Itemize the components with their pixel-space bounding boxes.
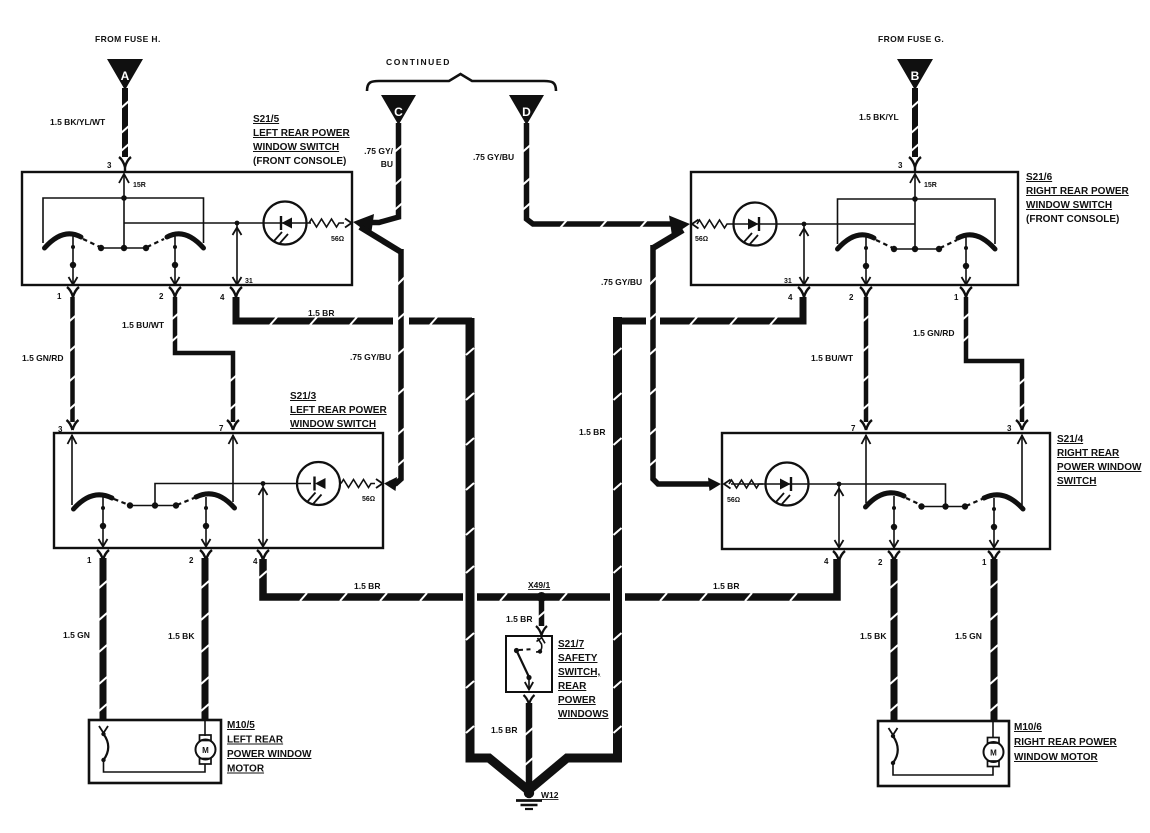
svg-text:3: 3 xyxy=(58,425,63,434)
svg-text:POWER: POWER xyxy=(558,695,597,706)
pin 3 connector of S21/6 xyxy=(909,157,921,172)
wire label 1.5 BU/WT xyxy=(122,320,165,330)
svg-text:4: 4 xyxy=(824,557,829,566)
svg-text:.75 GY/: .75 GY/ xyxy=(364,146,393,156)
svg-text:1.5 BR: 1.5 BR xyxy=(491,725,517,735)
S21/6 contact dashes xyxy=(876,240,957,248)
S21/6 resistor xyxy=(692,220,731,229)
wire label 1.5 GN xyxy=(955,631,982,641)
S21/3 contact dashes xyxy=(114,498,194,505)
label W12 xyxy=(541,790,559,800)
svg-text:1.5 BK/YL/WT: 1.5 BK/YL/WT xyxy=(50,117,106,127)
svg-text:.75 GY/BU: .75 GY/BU xyxy=(350,352,391,362)
S21/4 center contact bar xyxy=(922,506,966,508)
label FROM FUSE G. xyxy=(878,34,944,44)
svg-text:S21/5: S21/5 xyxy=(253,114,280,125)
S21/3 pin1 stem xyxy=(99,497,108,547)
svg-text:1.5 BU/WT: 1.5 BU/WT xyxy=(122,320,165,330)
S21/4 pin 7 connector xyxy=(860,420,872,430)
S21/6 illumination lamp xyxy=(734,203,777,246)
svg-text:WINDOW SWITCH: WINDOW SWITCH xyxy=(253,142,339,153)
wire from B to S21/6 pin 3 xyxy=(912,88,918,157)
label X49/1 xyxy=(528,580,550,590)
svg-text:1.5 GN: 1.5 GN xyxy=(955,631,982,641)
node X49/1 xyxy=(537,592,547,602)
S21/3 pin 7 connector xyxy=(227,420,239,430)
S21/4 pin 4 connector xyxy=(833,551,845,561)
S21/5 pin 4 connector xyxy=(230,287,242,297)
M10/5 brush contact xyxy=(99,726,108,760)
junction arrow into S21/6 left edge xyxy=(669,216,690,237)
S21/5 pin 3 entry arrow and terminal 15R xyxy=(119,174,129,223)
svg-text:1.5 BU/WT: 1.5 BU/WT xyxy=(811,353,854,363)
S21/4 pin1 stem xyxy=(990,498,999,548)
S21/6 pin2 stem xyxy=(862,237,871,285)
wire 1.5 GN/RD from S21/6 pin1 to S21/4 pin3 xyxy=(966,297,1022,422)
svg-text:LEFT REAR POWER: LEFT REAR POWER xyxy=(253,128,350,139)
S21/3 pin4 stem xyxy=(259,484,268,547)
svg-text:M: M xyxy=(990,749,997,758)
pin number 3 xyxy=(898,161,903,170)
svg-text:X49/1: X49/1 xyxy=(528,580,550,590)
M10/6 label block xyxy=(1014,722,1118,763)
S21/6 pin 1 connector xyxy=(960,287,972,297)
ground node W12 xyxy=(524,788,534,798)
switch S21/6 box outline xyxy=(691,172,1018,285)
S21/7 switch contacts xyxy=(517,638,546,690)
svg-text:7: 7 xyxy=(219,424,224,433)
safety switch output connector xyxy=(524,695,535,704)
S21/3 pin 4 connector xyxy=(257,550,269,560)
svg-text:(FRONT CONSOLE): (FRONT CONSOLE) xyxy=(1026,214,1119,225)
S21/6 lamp feed wire xyxy=(731,224,915,249)
svg-text:W12: W12 xyxy=(541,790,559,800)
wire label .75 GY/BU (C wire) xyxy=(364,146,393,169)
svg-text:56Ω: 56Ω xyxy=(727,497,740,504)
wire label 1.5 BR xyxy=(308,308,334,318)
S21/5 pin4 stem (terminal 31) xyxy=(233,223,242,285)
svg-text:SWITCH,: SWITCH, xyxy=(558,667,600,678)
S21/6 pin4 stem (terminal 31) xyxy=(800,224,809,285)
wire label 1.5 GN/RD xyxy=(913,328,955,338)
S21/5 center contact bar xyxy=(101,247,146,249)
wire label 1.5 BK/YL xyxy=(859,112,899,122)
svg-text:4: 4 xyxy=(253,557,258,566)
svg-text:LEFT REAR POWER: LEFT REAR POWER xyxy=(290,405,387,416)
brace over connectors C and D xyxy=(367,74,556,91)
svg-text:1.5 BR: 1.5 BR xyxy=(506,614,532,624)
svg-text:1.5 BR: 1.5 BR xyxy=(354,581,380,591)
svg-text:SWITCH: SWITCH xyxy=(1057,476,1096,487)
S21/6 left rocker contact xyxy=(838,235,875,249)
M10/6 internal wire xyxy=(893,722,993,775)
svg-text:RIGHT REAR POWER: RIGHT REAR POWER xyxy=(1026,186,1130,197)
svg-text:4: 4 xyxy=(220,293,225,302)
switch S21/3 box outline xyxy=(54,433,383,548)
S21/4 contact dashes xyxy=(906,498,982,506)
S21/4 lamp feed wire xyxy=(731,484,946,506)
svg-text:2: 2 xyxy=(849,293,854,302)
svg-text:CONTINUED: CONTINUED xyxy=(386,57,451,67)
S21/3 pin3 entry wire and arrow xyxy=(68,435,77,505)
wire 1.5 GN from S21/3 pin1 to motor M10/5 xyxy=(100,558,107,721)
svg-text:2: 2 xyxy=(189,556,194,565)
svg-text:15R: 15R xyxy=(133,182,146,189)
S21/7 label block xyxy=(558,639,609,720)
S21/5 right rocker contact xyxy=(167,234,204,248)
svg-text:FROM FUSE G.: FROM FUSE G. xyxy=(878,34,944,44)
S21/3 contact nodes xyxy=(127,502,179,508)
S21/4 pin 2 connector xyxy=(888,551,900,561)
S21/6 contact nodes xyxy=(891,246,942,252)
svg-text:C: C xyxy=(394,105,403,119)
wire 1.5 BU/WT from S21/6 pin2 to S21/4 pin7 xyxy=(864,297,869,422)
wire 1.5 BR from X49/1 to safety switch xyxy=(539,600,545,626)
resistor value 56 ohm xyxy=(727,497,740,504)
wire label 1.5 GN xyxy=(63,630,90,640)
wire 1.5 BR from S21/3 pin4 to node X49/1 xyxy=(263,559,463,597)
svg-text:1.5 BK/YL: 1.5 BK/YL xyxy=(859,112,899,122)
arrow into S21/4 left edge xyxy=(708,478,721,492)
M10/5 motor symbol xyxy=(196,735,216,764)
svg-text:S21/6: S21/6 xyxy=(1026,172,1053,183)
arrow into S21/3 right edge xyxy=(384,477,397,491)
S21/3 pin 3 connector xyxy=(67,420,79,430)
svg-text:56Ω: 56Ω xyxy=(695,236,708,243)
S21/5 pin1 stem xyxy=(69,236,78,285)
svg-text:WINDOW MOTOR: WINDOW MOTOR xyxy=(1014,752,1098,763)
svg-text:15R: 15R xyxy=(924,182,937,189)
M10/6 motor symbol xyxy=(984,738,1004,767)
safety switch input connector xyxy=(536,626,547,635)
S21/3 pin 1 connector xyxy=(97,550,109,560)
svg-text:M: M xyxy=(202,746,209,755)
svg-text:WINDOWS: WINDOWS xyxy=(558,709,609,720)
svg-text:1.5 BR: 1.5 BR xyxy=(308,308,334,318)
svg-text:3: 3 xyxy=(1007,424,1012,433)
svg-text:M10/6: M10/6 xyxy=(1014,722,1042,733)
S21/4 label block xyxy=(1057,434,1142,487)
connector B (triangle) xyxy=(897,59,933,90)
S21/3 right rocker contact xyxy=(196,494,235,508)
S21/5 internal node (pin3 junction) xyxy=(121,195,127,201)
M10/5 label block xyxy=(227,720,312,775)
svg-text:4: 4 xyxy=(788,293,793,302)
wire 1.5 BK from S21/4 pin2 to motor M10/6 xyxy=(891,559,898,722)
svg-text:1.5 BR: 1.5 BR xyxy=(579,427,605,437)
S21/4 right rocker contact xyxy=(984,495,1023,509)
wire 1.5 BR from safety switch to ground W12 xyxy=(526,703,533,789)
M10/5 internal wire xyxy=(104,721,206,772)
S21/5 resistor xyxy=(309,219,352,228)
svg-text:FROM FUSE H.: FROM FUSE H. xyxy=(95,34,161,44)
S21/5 left rocker contact xyxy=(45,234,82,248)
resistor value 56 ohm xyxy=(362,496,375,503)
wire label 1.5 BR xyxy=(354,581,380,591)
svg-text:1.5 BK: 1.5 BK xyxy=(860,631,887,641)
svg-text:B: B xyxy=(911,69,920,83)
S21/3 center contact bar xyxy=(130,505,176,507)
ground symbol xyxy=(516,801,542,810)
svg-text:S21/4: S21/4 xyxy=(1057,434,1084,445)
S21/4 pin4 stem xyxy=(835,484,844,548)
svg-text:D: D xyxy=(522,105,531,119)
wire 1.5 BR from S21/5 pin4 to left bus xyxy=(236,297,472,321)
svg-text:56Ω: 56Ω xyxy=(331,236,344,243)
wire label 1.5 BR xyxy=(713,581,739,591)
S21/3 pin 2 connector xyxy=(200,550,212,560)
wire label 1.5 BU/WT xyxy=(811,353,854,363)
wire label 1.5 BR (right bus) xyxy=(579,427,605,437)
svg-text:1: 1 xyxy=(87,556,92,565)
S21/6 right rocker contact xyxy=(958,235,995,249)
S21/3 left rocker contact xyxy=(74,495,113,509)
S21/3 resistor xyxy=(341,479,383,488)
svg-text:MOTOR: MOTOR xyxy=(227,764,265,775)
S21/4 illumination lamp xyxy=(766,463,809,506)
svg-text:1.5 BK: 1.5 BK xyxy=(168,631,195,641)
svg-text:S21/7: S21/7 xyxy=(558,639,585,650)
S21/4 pin2 stem xyxy=(890,496,899,548)
connector D (triangle) xyxy=(509,95,544,125)
S21/5 pin 1 connector xyxy=(67,287,79,297)
S21/5 contact dashes xyxy=(83,239,164,247)
svg-text:3: 3 xyxy=(107,161,112,170)
S21/4 pin 3 connector xyxy=(1016,420,1028,430)
junction arrow into S21/5 right edge xyxy=(353,214,374,235)
S21/5 label block xyxy=(253,114,350,167)
S21/5 pin2 stem xyxy=(171,236,180,285)
svg-text:(FRONT CONSOLE): (FRONT CONSOLE) xyxy=(253,156,346,167)
S21/7 switch nodes xyxy=(514,648,542,680)
S21/3 pin2 stem xyxy=(202,497,211,547)
S21/5 illumination lamp xyxy=(264,202,307,245)
S21/6 internal node (pin3 junction) xyxy=(912,196,918,202)
S21/5 contact nodes xyxy=(98,245,149,251)
svg-text:WINDOW SWITCH: WINDOW SWITCH xyxy=(290,419,376,430)
S21/4 contact nodes xyxy=(918,503,968,509)
wire 1.5 BR from S21/6 pin4 to right bus xyxy=(614,297,803,321)
wire label 1.5 BK xyxy=(860,631,887,641)
svg-text:1: 1 xyxy=(954,293,959,302)
svg-text:1.5 GN/RD: 1.5 GN/RD xyxy=(913,328,955,338)
svg-text:POWER WINDOW: POWER WINDOW xyxy=(1057,462,1142,473)
label CONTINUED xyxy=(386,57,451,67)
wire label .75 GY/BU (right riser) xyxy=(601,277,642,287)
svg-text:BU: BU xyxy=(381,159,393,169)
wire hatch marks xyxy=(69,101,1027,765)
svg-text:.75 GY/BU: .75 GY/BU xyxy=(473,152,514,162)
S21/6 center contact bar xyxy=(894,248,939,250)
wire label 1.5 BK xyxy=(168,631,195,641)
svg-text:1: 1 xyxy=(982,558,987,567)
S21/4 left rocker contact xyxy=(866,493,905,507)
wire label .75 GY/BU (left riser) xyxy=(350,352,391,362)
connector C (triangle) xyxy=(381,95,416,125)
wire 1.5 BK from S21/3 pin2 to motor M10/5 xyxy=(202,558,209,721)
wire label .75 GY/BU (D wire) xyxy=(473,152,514,162)
svg-text:M10/5: M10/5 xyxy=(227,720,255,731)
S21/6 pin 3 entry arrow and terminal 15R xyxy=(910,174,920,224)
svg-text:RIGHT REAR POWER: RIGHT REAR POWER xyxy=(1014,737,1118,748)
svg-text:A: A xyxy=(121,69,130,83)
svg-text:1: 1 xyxy=(57,292,62,301)
svg-text:1.5 GN: 1.5 GN xyxy=(63,630,90,640)
S21/3 pin7 entry wire and arrow xyxy=(229,435,238,502)
S21/3 lamp feed wire xyxy=(155,484,311,506)
S21/6 pin 2 connector xyxy=(860,287,872,297)
S21/4 pin3 entry wire and arrow xyxy=(1018,435,1027,505)
motor M10/5 box outline xyxy=(89,720,221,783)
wire label 1.5 BR xyxy=(491,725,517,735)
label FROM FUSE H. xyxy=(95,34,161,44)
wire 1.5 GN from S21/4 pin1 to motor M10/6 xyxy=(991,559,998,722)
S21/5 pin 2 connector xyxy=(169,287,181,297)
pin 3 connector of S21/5 xyxy=(119,157,131,172)
safety switch S21/7 box xyxy=(506,636,552,692)
svg-text:POWER WINDOW: POWER WINDOW xyxy=(227,749,312,760)
svg-text:.75 GY/BU: .75 GY/BU xyxy=(601,277,642,287)
wire 1.5 BU/WT from S21/5 pin2 to S21/3 pin7 xyxy=(175,297,233,422)
wire 1.5 BR segment between buses xyxy=(477,593,610,601)
svg-text:2: 2 xyxy=(159,292,164,301)
svg-text:SAFETY: SAFETY xyxy=(558,653,598,664)
svg-text:1.5 BR: 1.5 BR xyxy=(713,581,739,591)
S21/6 pin1 stem xyxy=(962,237,971,285)
svg-text:1.5 GN/RD: 1.5 GN/RD xyxy=(22,353,64,363)
switch S21/5 box outline xyxy=(22,172,352,285)
wire from D to S21/6 left edge xyxy=(527,123,682,224)
wire label 1.5 GN/RD xyxy=(22,353,64,363)
svg-text:31: 31 xyxy=(784,278,792,285)
svg-text:2: 2 xyxy=(878,558,883,567)
svg-text:S21/3: S21/3 xyxy=(290,391,317,402)
svg-text:REAR: REAR xyxy=(558,681,587,692)
svg-text:RIGHT REAR: RIGHT REAR xyxy=(1057,448,1120,459)
S21/3 illumination lamp xyxy=(297,462,340,505)
switch S21/4 box outline xyxy=(722,433,1050,549)
S21/5 lamp feed wire xyxy=(124,223,311,248)
svg-text:WINDOW SWITCH: WINDOW SWITCH xyxy=(1026,200,1112,211)
pin number 3 xyxy=(107,161,112,170)
S21/3 label block xyxy=(290,391,387,430)
wire .75 GY/BU from junction down to S21/4 xyxy=(653,230,712,484)
svg-text:31: 31 xyxy=(245,278,253,285)
right ground bus 1.5 BR down to W12 xyxy=(530,317,618,789)
connector A (triangle) xyxy=(107,59,143,90)
S21/5 bridge wire xyxy=(43,198,204,243)
S21/6 pin 4 connector xyxy=(798,287,810,297)
wire label 1.5 BR xyxy=(506,614,532,624)
left ground bus 1.5 BR down to W12 xyxy=(470,318,528,790)
resistor value 56 ohm xyxy=(331,236,344,243)
S21/6 label block xyxy=(1026,172,1130,225)
S21/4 pin 1 connector xyxy=(988,551,1000,561)
wire from C down to S21/5 right edge xyxy=(361,123,399,223)
S21/4 pin7 entry wire and arrow xyxy=(862,435,871,503)
wire label 1.5 BK/YL/WT xyxy=(50,117,106,127)
svg-text:3: 3 xyxy=(898,161,903,170)
M10/6 brush contact xyxy=(889,728,898,763)
svg-text:56Ω: 56Ω xyxy=(362,496,375,503)
svg-text:LEFT REAR: LEFT REAR xyxy=(227,735,284,746)
wire 1.5 GN/RD from S21/5 pin1 to S21/3 pin3 xyxy=(70,297,75,422)
wire 1.5 BR from right bus gap to S21/4 pin4 xyxy=(625,559,837,597)
wire from A to S21/5 pin 3 xyxy=(122,88,128,157)
S21/4 resistor xyxy=(724,480,763,489)
resistor value 56 ohm xyxy=(695,236,708,243)
svg-text:7: 7 xyxy=(851,424,856,433)
motor M10/6 box outline xyxy=(878,721,1009,786)
S21/6 bridge wire xyxy=(838,199,996,244)
wire .75 GY/BU from junction down to S21/3 xyxy=(360,227,401,484)
